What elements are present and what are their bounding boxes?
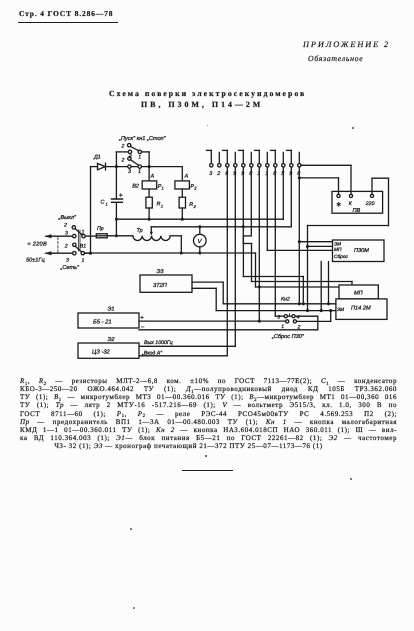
wire P30M ZM input [299, 241, 332, 243]
wire line A [223, 302, 336, 305]
svg-text:П14 2М: П14 2М [351, 306, 371, 312]
svg-text:Э1: Э1 [108, 307, 115, 313]
header left [19, 9, 113, 18]
svg-text:220: 220 [365, 201, 375, 207]
bus H4 tap line [151, 225, 291, 228]
svg-text:Б5 - 21: Б5 - 21 [93, 318, 112, 325]
box E2 frequency meter Ch3-32 [78, 337, 139, 358]
svg-text:ЗМ: ЗМ [334, 242, 341, 248]
wire lane B to MP box [252, 282, 353, 286]
svg-text:МП: МП [334, 247, 342, 253]
svg-text:МП: МП [354, 290, 364, 296]
box E3 chronograph 372P [140, 269, 192, 292]
wire vertical from diode line down to N wire [89, 167, 92, 255]
wire pin5 down with jog right [243, 167, 251, 282]
resistor R1 [146, 189, 163, 219]
wire H5 neutral line [85, 251, 340, 288]
svg-text:3: 3 [209, 171, 212, 177]
svg-text:Вых 1000Гц: Вых 1000Гц [144, 340, 173, 346]
wire P30M bottom out 2 [327, 262, 330, 306]
svg-text:4: 4 [297, 314, 300, 320]
switch B1 [72, 226, 85, 255]
wire P30M MP input [308, 245, 333, 247]
svg-text:Сброс: Сброс [334, 254, 348, 260]
plug Ш (dashed) [57, 237, 59, 252]
wire 372P out2 to line B [192, 288, 216, 310]
wire P30M bottom out 1 [320, 262, 323, 313]
svg-text:П30М: П30М [354, 248, 369, 254]
wire PV star to pin12 [299, 178, 338, 194]
node A labels [150, 173, 189, 179]
svg-text:Э2: Э2 [108, 337, 116, 343]
wire Kn2 contact2 to line B [297, 311, 331, 322]
wire pin11 to bus H4 [290, 167, 292, 227]
wire Kn2 contact4 to minus line [295, 316, 318, 330]
input terminal N (arrow) [44, 251, 73, 255]
fuse Pr [96, 226, 107, 238]
relay P1 [132, 167, 164, 191]
input terminal L (arrow) [44, 234, 73, 238]
svg-text:„Вход А“: „Вход А“ [141, 350, 162, 356]
wire pin3 to Ch3-32 input A [139, 167, 227, 356]
svg-text:Кн2: Кн2 [281, 297, 290, 303]
wire pin12 chain down [298, 167, 301, 305]
svg-text:+: + [140, 315, 144, 321]
speck marks [205, 455, 207, 457]
wire pin10 to bus H3 [282, 167, 284, 219]
transformer Tr [133, 227, 181, 253]
wire P30M sbros input [267, 249, 332, 251]
resistor R2 [179, 189, 196, 219]
header right [303, 40, 390, 49]
wire pin9 to Kn2 contact 3 [275, 167, 284, 316]
svg-text:ПВ: ПВ [353, 208, 361, 214]
wire pin6 down with jog left [243, 167, 251, 277]
wire pin8 to P30M sbros [266, 167, 268, 250]
title [109, 89, 306, 98]
svg-text:372П: 372П [153, 282, 168, 289]
svg-text:1: 1 [281, 324, 284, 330]
wire 372P out1 to line A [192, 282, 223, 304]
wire H1 node line [91, 165, 183, 168]
svg-text:Э3: Э3 [157, 269, 165, 275]
button Kn1 [116, 144, 149, 169]
svg-text:2: 2 [216, 171, 220, 177]
svg-text:∗: ∗ [336, 202, 342, 209]
wire fuse to transformer [107, 235, 133, 237]
wire line B [216, 309, 336, 312]
svg-text:ЗМ: ЗМ [337, 307, 344, 313]
bus H3 [115, 218, 283, 221]
box E1 power supply B5-21 [78, 307, 145, 331]
wire plus line to Kn2 contact1 [139, 320, 286, 322]
pin numbers [209, 171, 300, 177]
box P30M [333, 240, 385, 262]
svg-text:„Сброс П30“: „Сброс П30“ [271, 333, 305, 340]
diode D1 [93, 155, 106, 171]
box PV [332, 191, 383, 214]
wire minus line C [139, 329, 318, 331]
wire B1 row1 to fuse [85, 235, 96, 237]
wire pin4 to Ch3-32 output [139, 167, 235, 346]
box P14-2M [336, 299, 387, 320]
capacitor C1 [101, 167, 123, 236]
svg-text:3: 3 [277, 314, 280, 320]
svg-text:ЦЗ -32: ЦЗ -32 [92, 349, 111, 356]
Kn2 contact numbers [277, 314, 300, 330]
wire PV 220 around box [306, 178, 389, 312]
wire B1 row2 right [85, 252, 92, 254]
footnote paragraph [20, 377, 397, 450]
wire PV K to pin12 socket [301, 165, 351, 194]
relay P2 [175, 167, 197, 191]
end rule [182, 470, 233, 471]
button Kn2 [284, 314, 296, 323]
B1 contact numbers [63, 223, 86, 264]
Kn1 contact numbers [121, 143, 142, 175]
wire pin7 to plus line [258, 167, 261, 323]
wire lane A to P14 area [243, 277, 303, 304]
box MP [339, 285, 378, 299]
voltmeter V [194, 227, 207, 253]
connector pin row (12 sockets) [207, 150, 301, 167]
junction C1 column / fuse line [115, 234, 118, 237]
